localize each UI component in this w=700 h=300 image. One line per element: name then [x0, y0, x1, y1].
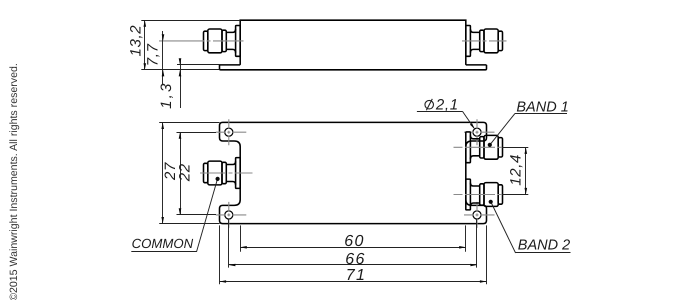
extension line, plan body bottom (27)	[159, 223, 219, 225]
svg-text:13,2: 13,2	[128, 25, 145, 57]
svg-text:71: 71	[346, 267, 367, 284]
connector top-left end cap	[204, 31, 208, 50]
dimension 12,4 line and arrows	[525, 147, 527, 194]
mounting hole top-right (dia 2,1)	[473, 128, 481, 136]
extension line, body top (13,2)	[141, 20, 240, 22]
dimension 60 line and arrows	[240, 247, 466, 249]
extension lines for dimension 66	[228, 219, 230, 268]
connector BAND2 base flange	[466, 179, 471, 210]
svg-text:1,3: 1,3	[158, 81, 175, 108]
extension line, flange bottom (13,2 / 7,7)	[141, 69, 219, 71]
dimension 1,3 line and arrows (outside)	[180, 59, 182, 109]
svg-text:COMMON: COMMON	[132, 236, 194, 251]
connector top-left washer	[222, 30, 226, 51]
connector COMMON end cap	[204, 163, 208, 182]
svg-text:7,7: 7,7	[144, 43, 161, 66]
centre line of side-view connectors, left	[159, 40, 244, 42]
extension lines for dimension 71	[219, 225, 221, 284]
connector COMMON coupling nut	[208, 161, 222, 185]
extension line, flange top (1,3)	[177, 64, 220, 66]
connector top-right end cap	[498, 31, 502, 50]
connector COMMON neck and flare	[226, 161, 235, 185]
connector BAND2 end cap	[498, 185, 502, 204]
svg-text:66: 66	[345, 251, 366, 268]
dimension 13,2 line and arrows	[144, 20, 146, 70]
connector BAND2 washer	[480, 184, 484, 205]
connector top-right coupling nut	[484, 29, 498, 53]
centre cross of bottom-left hole	[228, 202, 230, 229]
connector BAND2 neck and flare	[470, 183, 479, 207]
extension line, bottom hole centre (22)	[177, 214, 217, 216]
connector COMMON washer	[222, 162, 226, 183]
connector BAND1 washer	[480, 137, 484, 158]
connector BAND1 end cap	[498, 138, 502, 157]
centre line of BAND 1 connector	[454, 146, 503, 148]
centre cross of top-left hole	[228, 119, 230, 146]
centre cross of top-right hole	[476, 119, 478, 146]
centre line of COMMON connector	[200, 172, 253, 174]
mounting hole top-left (dia 2,1)	[225, 128, 233, 136]
svg-text:BAND 2: BAND 2	[518, 237, 570, 253]
dimension 27 line and arrows	[162, 122, 164, 223]
centre line of BAND 2 connector	[454, 194, 503, 196]
diameter symbol	[425, 100, 434, 109]
svg-text:60: 60	[344, 233, 365, 250]
mounting flange (side view)	[220, 64, 487, 66]
svg-text:22: 22	[176, 163, 193, 182]
extension lines for dimension 60	[240, 225, 242, 251]
svg-text:12,4: 12,4	[507, 154, 524, 186]
connector top-left base flange	[236, 26, 241, 57]
connector top-right washer	[480, 30, 484, 51]
connector top-left neck and flare	[226, 29, 235, 53]
extension lines, BAND connector centres (12,4)	[502, 147, 528, 149]
connector COMMON base flange	[236, 158, 241, 189]
body plan outline with mounting ears	[220, 122, 487, 223]
connector top-right neck and flare	[470, 29, 479, 53]
svg-text:2,1: 2,1	[435, 96, 459, 113]
centre line of side-view connectors, right	[462, 40, 507, 42]
body side outline	[240, 20, 466, 65]
mounting hole bottom-left (dia 2,1)	[225, 211, 233, 219]
svg-text:©2015 Wainwright Instruments.: ©2015 Wainwright Instruments. All rights…	[8, 63, 20, 300]
connector BAND2 coupling nut	[484, 183, 498, 207]
dimension 66 line and arrows	[229, 264, 477, 266]
dimension 7,7 line and arrows (outside)	[162, 31, 164, 85]
extension line, plan body top (27)	[159, 122, 219, 124]
connector top-right base flange	[466, 26, 471, 57]
extension line, top hole centre (22)	[177, 132, 217, 134]
dimension 71 line and arrows	[220, 281, 487, 283]
connector BAND1 coupling nut	[484, 135, 498, 159]
dimension 22 line and arrows	[180, 132, 182, 215]
connector BAND1 neck and flare	[470, 136, 479, 160]
mounting hole bottom-right (dia 2,1)	[473, 211, 481, 219]
connector top-left coupling nut	[208, 29, 222, 53]
connector BAND1 base flange	[466, 132, 471, 163]
centre cross of bottom-right hole	[476, 202, 478, 229]
